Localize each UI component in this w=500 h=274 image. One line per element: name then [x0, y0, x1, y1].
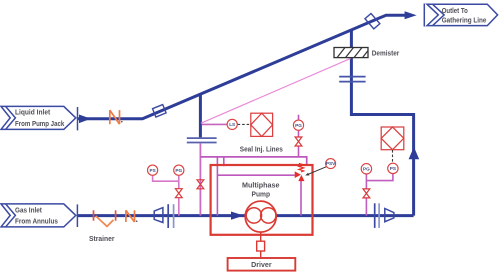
- svg-text:Strainer: Strainer: [89, 234, 115, 243]
- multiphase pump circle: [245, 201, 276, 232]
- svg-text:Multiphase: Multiphase: [242, 181, 280, 190]
- svg-text:Liquid Inlet: Liquid Inlet: [15, 108, 51, 117]
- sight glass on liquid diagonal: [153, 105, 167, 117]
- flag Gas Inlet From Annulus: [1, 204, 76, 227]
- LS connection line: [202, 123, 227, 125]
- left PS/PG instrument piping: [153, 176, 179, 216]
- seal injection diagonal line to demister: [201, 58, 351, 123]
- svg-text:Driver: Driver: [251, 260, 272, 269]
- seal drop D1 with inner header: [217, 157, 294, 216]
- PSV label arrow: [308, 166, 328, 174]
- flag Outlet To Gathering Line: [427, 4, 498, 25]
- wire gas inlet main line: [78, 214, 414, 217]
- valve on riser x200: [197, 180, 204, 189]
- level branch break bars: [187, 138, 217, 142]
- pump shaft upper: [260, 232, 262, 241]
- svg-text:PS: PS: [149, 168, 155, 173]
- discharge flange pair: [374, 203, 376, 228]
- wire level branch from diagonal: [199, 94, 202, 137]
- PSV drain line: [300, 181, 302, 216]
- svg-text:PG: PG: [295, 123, 302, 128]
- flag Liquid Inlet From Pump Jack: [1, 106, 76, 129]
- relief valve triangles: [295, 171, 301, 178]
- right alarm square with diamond: [381, 127, 404, 150]
- instrument circle PS right: [388, 163, 398, 173]
- discharge up arrow: [409, 147, 420, 159]
- sight glass on top diagonal: [365, 13, 380, 28]
- instrument circle PS left: [148, 165, 158, 175]
- demister hatched box: [334, 48, 368, 58]
- gas inlet tick: [76, 204, 78, 227]
- instrument circle PSV: [326, 159, 336, 169]
- pump shaft lower: [260, 251, 262, 258]
- wire liquid inlet main line: [78, 15, 406, 119]
- valve above bus below PG298: [295, 137, 302, 146]
- right PG/PS instrument piping: [366, 174, 393, 216]
- dashed line alarm to PS: [392, 150, 394, 163]
- svg-text:Outlet To: Outlet To: [442, 6, 468, 15]
- valve below left PG: [175, 189, 182, 198]
- dot after gas check valve: [136, 220, 138, 222]
- inlet expander cone: [154, 208, 163, 223]
- svg-text:PG: PG: [175, 168, 182, 173]
- instrument circle LS: [227, 119, 237, 129]
- instrument circle PG left: [174, 165, 184, 175]
- outlet tick: [423, 4, 425, 27]
- discharge reducer cone: [385, 209, 394, 222]
- gas flow arrow into pump: [231, 212, 244, 220]
- red pump skid box outline: [211, 165, 313, 235]
- svg-text:Pump: Pump: [252, 189, 271, 198]
- instrument circle PG mid: [293, 120, 303, 130]
- svg-text:From Pump Jack: From Pump Jack: [15, 119, 65, 128]
- svg-text:PS: PS: [390, 166, 396, 171]
- pump rotor right: [261, 208, 276, 223]
- PG298 stub and connections: [298, 115, 300, 157]
- svg-text:PG: PG: [363, 167, 370, 172]
- liquid flow arrow: [79, 115, 91, 124]
- coupling box: [257, 241, 265, 251]
- svg-text:Gathering Line: Gathering Line: [442, 16, 487, 25]
- driver box: [228, 258, 296, 271]
- left alarm square with diamond: [251, 113, 273, 136]
- outlet flow arrow: [405, 11, 417, 19]
- check valve N gas: [126, 210, 135, 222]
- inlet flange pair: [167, 204, 169, 228]
- dot after liquid check valve: [121, 121, 123, 123]
- pump rotor left: [246, 208, 261, 223]
- liquid inlet tick: [77, 107, 79, 130]
- valve below right PG: [363, 189, 370, 198]
- demister line break bars: [339, 77, 365, 82]
- svg-text:Gas Inlet: Gas Inlet: [15, 206, 42, 215]
- instrument circle PG right: [361, 164, 371, 174]
- seal injection bus: [200, 157, 306, 166]
- relief valve PSV spring: [299, 163, 304, 172]
- svg-text:PSV: PSV: [326, 161, 336, 166]
- wire demister riser and discharge loop: [351, 29, 413, 215]
- seal drop D2: [223, 157, 225, 166]
- seal line riser x200: [199, 143, 201, 215]
- dashed line LS to alarm: [238, 123, 251, 125]
- check valve N liquid: [110, 110, 120, 124]
- svg-text:LS: LS: [229, 122, 235, 127]
- svg-text:Demister: Demister: [372, 48, 400, 57]
- svg-text:From Annulus: From Annulus: [15, 216, 58, 225]
- svg-text:Seal Inj. Lines: Seal Inj. Lines: [240, 144, 283, 153]
- strainer: [94, 210, 116, 226]
